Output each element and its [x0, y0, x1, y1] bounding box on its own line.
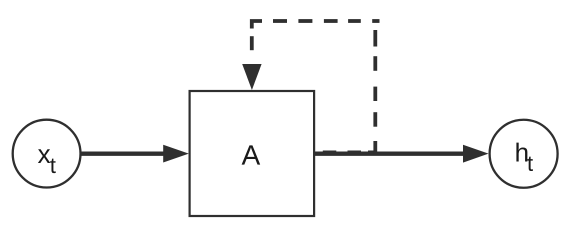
label h (glyph) [516, 143, 527, 162]
node x_t circle [13, 120, 81, 188]
feedback dashed wire: overlap dashes on output line [323, 150, 376, 154]
input arrowhead [163, 145, 189, 163]
feedback dashed wire: top horizontal y=21 [252, 21, 380, 29]
feedback arrowhead into A [242, 64, 261, 90]
label A (glyph) [242, 145, 261, 164]
wire input arrow shaft [81, 152, 166, 156]
feedback dashed wire: left vertical x=251.8 [250, 36, 254, 50]
output arrowhead [463, 145, 489, 163]
label x subscript t [50, 159, 56, 173]
block A [190, 91, 315, 216]
feedback dashed wire: right vertical x=375.3 [373, 30, 377, 155]
node h_t circle [490, 120, 558, 188]
wire output arrow shaft [314, 152, 465, 156]
label x (glyph) [38, 149, 50, 163]
label h subscript t [527, 157, 533, 171]
